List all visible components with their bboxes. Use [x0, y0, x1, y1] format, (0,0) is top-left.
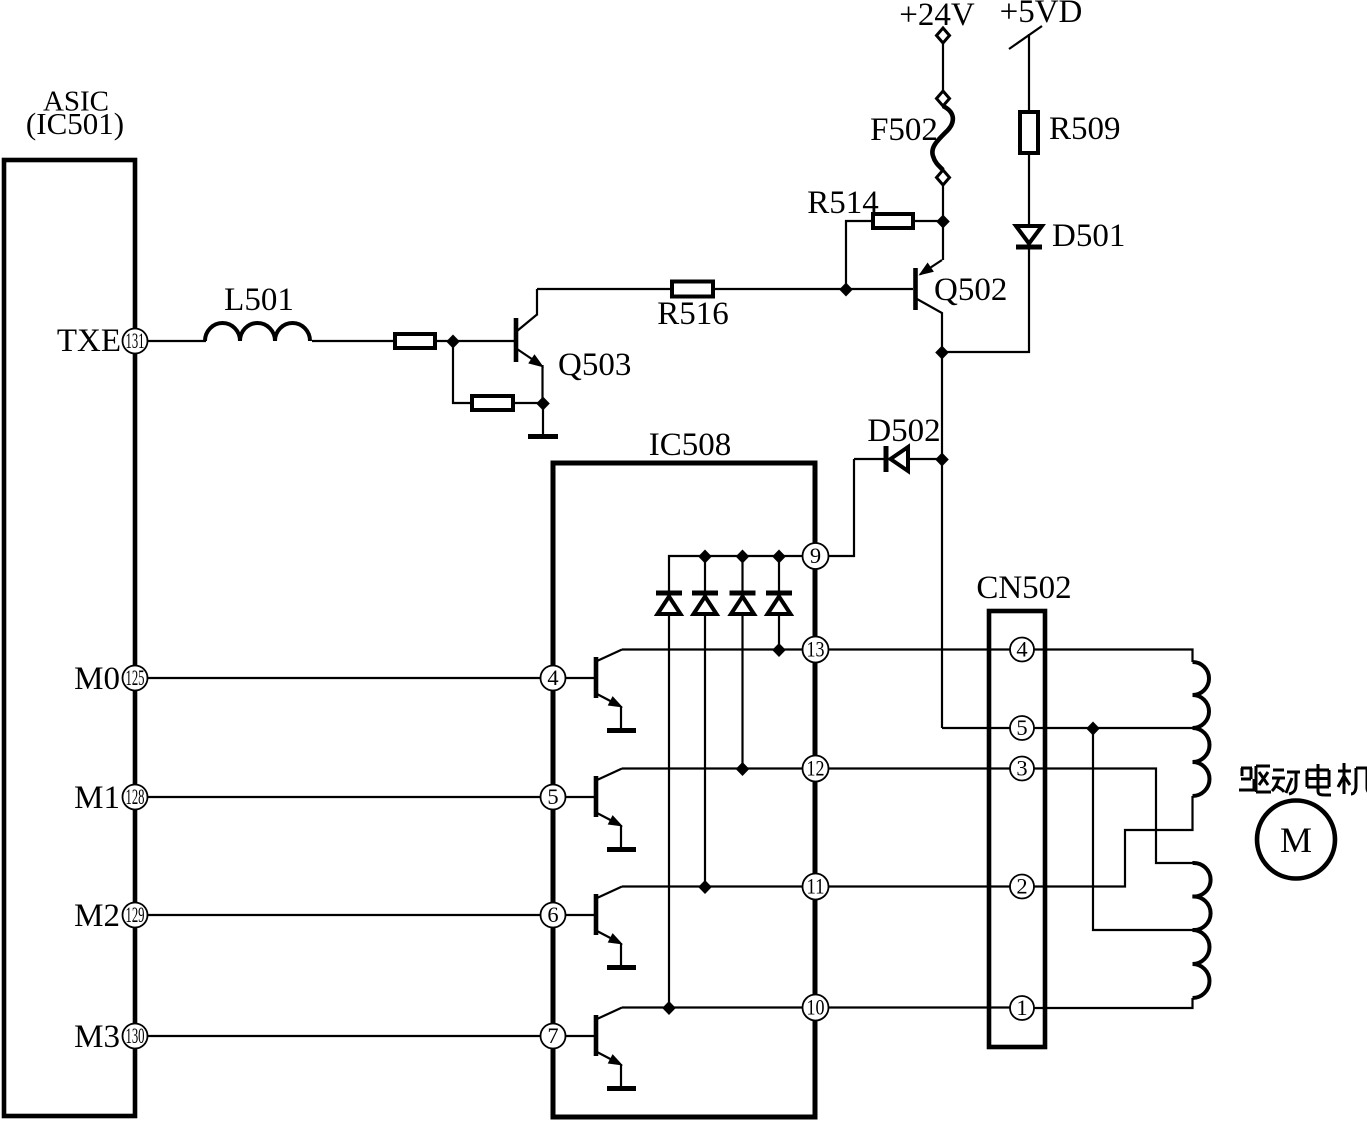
pin 11 circle IC508: [803, 874, 829, 900]
svg-text:130: 130: [126, 1023, 145, 1048]
svg-text:TXE: TXE: [57, 323, 121, 359]
svg-text:11: 11: [807, 874, 825, 899]
wire D502 to pin9: [829, 459, 854, 556]
svg-text:R514: R514: [807, 185, 879, 221]
svg-text:4: 4: [1016, 637, 1027, 662]
svg-text:3: 3: [1016, 756, 1027, 781]
svg-text:Q502: Q502: [934, 272, 1007, 308]
pin 4 circle CN502: [1010, 637, 1034, 662]
label 驱动电机 (drive motor) hand-drawn glyphs: [1239, 763, 1367, 795]
svg-text:M0: M0: [74, 661, 120, 697]
svg-text:Q503: Q503: [558, 347, 631, 383]
wire T3 collector to pin11: [622, 885, 803, 887]
pin 13 circle IC508: [803, 637, 829, 663]
wire M3 to IC508 pin7: [148, 1035, 541, 1037]
svg-text:M1: M1: [74, 780, 120, 816]
wire M2 to IC508 pin6: [148, 914, 541, 916]
svg-text:125: 125: [126, 665, 145, 690]
transistor T2 (pin5): [566, 769, 624, 848]
transistor Q502: [916, 260, 943, 352]
transistor T1 (pin4): [566, 650, 624, 729]
motor M1 circle: [1257, 801, 1335, 879]
pin 5 circle CN502: [1010, 715, 1034, 740]
wire W2 to CN502 pin2: [1034, 796, 1193, 887]
pin 4 circle IC508: [541, 665, 566, 691]
wire T4 collector to pin10: [622, 1006, 803, 1008]
wire center tap to W3/W4 junction: [1093, 728, 1193, 930]
svg-text:D502: D502: [867, 413, 940, 449]
wire Q502 node to CN502 pin5: [942, 727, 1010, 729]
resistor R516: [672, 282, 713, 297]
wire node B to ground: [542, 403, 544, 434]
wire node A down: [453, 341, 472, 403]
svg-text:12: 12: [807, 756, 825, 781]
svg-text:F502: F502: [870, 112, 938, 148]
pin 10 circle IC508: [803, 995, 829, 1021]
motor winding W1: [1193, 662, 1210, 728]
transistor T4 (pin7): [566, 1008, 624, 1087]
pin 9 circle IC508: [803, 543, 829, 569]
ground T4: [607, 1086, 636, 1091]
node dA4 top junction: [772, 550, 786, 564]
glyph 电: [1307, 764, 1331, 795]
svg-text:131: 131: [126, 328, 145, 353]
svg-text:6: 6: [547, 902, 558, 927]
wire node E to D501 branch: [942, 249, 1029, 352]
svg-text:4: 4: [547, 665, 558, 690]
resistor (unlabeled, base series): [395, 334, 435, 348]
diode D501: [1016, 226, 1042, 247]
transistor Q503: [516, 289, 544, 402]
svg-text:D501: D501: [1052, 218, 1125, 254]
connector CN502 box: [989, 611, 1045, 1047]
svg-text:M2: M2: [74, 898, 120, 934]
pin 2 circle CN502: [1010, 874, 1034, 899]
power terminal diamond: [937, 28, 950, 43]
glyph 动: [1272, 770, 1300, 794]
clamp diode DA3: [730, 556, 756, 769]
svg-text:+24V: +24V: [899, 0, 975, 33]
wire CN502 pin3 to winding W3: [1034, 769, 1193, 864]
svg-text:(IC501): (IC501): [26, 106, 124, 141]
motor winding W4: [1193, 930, 1210, 998]
pin 12 circle IC508: [803, 756, 829, 782]
svg-text:1: 1: [1016, 995, 1027, 1020]
svg-text:M: M: [1280, 820, 1312, 860]
power tap slash: [1009, 26, 1042, 49]
wire TXE to L501: [148, 340, 207, 342]
motor winding W2: [1193, 728, 1210, 796]
glyph 驱: [1239, 766, 1271, 792]
pin 6 circle IC508: [541, 902, 566, 928]
ground (Q503 emitter): [528, 434, 558, 439]
svg-text:9: 9: [810, 543, 821, 568]
svg-text:M3: M3: [74, 1019, 120, 1055]
node dA2 top junction: [698, 550, 712, 564]
resistor (unlabeled, feedback): [472, 396, 513, 410]
node dA4 bottom junction (pin13 row): [772, 643, 786, 657]
pin 130 circle (M3): [123, 1023, 148, 1049]
wire CN502 pin5 to winding: [1034, 727, 1193, 729]
pin 129 circle (M2): [123, 902, 148, 928]
svg-text:5: 5: [1016, 715, 1027, 740]
fuse F502: [932, 91, 953, 185]
transistor T3 (pin6): [566, 887, 624, 966]
pin 128 circle (M1): [123, 784, 148, 810]
node C junction: [839, 283, 853, 297]
svg-text:R509: R509: [1049, 111, 1121, 147]
wire +24V to fuse: [942, 43, 944, 91]
node dA3 bottom junction (pin12 row): [736, 762, 750, 776]
wire feedback resistor to node B: [513, 402, 543, 404]
svg-text:L501: L501: [224, 282, 294, 318]
glyph 机: [1338, 763, 1367, 794]
wire CN502 pin4 to winding W1: [1034, 650, 1193, 663]
pin 131 circle (TXE): [123, 328, 148, 354]
wire W4 to CN502 pin1: [1034, 998, 1193, 1008]
wire pin12 to CN502 pin3: [829, 767, 1011, 769]
wire pin13 to CN502 pin4: [829, 648, 1011, 650]
inductor L501: [205, 323, 310, 341]
IC U2 IC508 box: [553, 463, 815, 1117]
clamp diode DA1: [656, 593, 682, 1008]
svg-text:13: 13: [807, 637, 825, 662]
motor winding W3: [1193, 863, 1211, 930]
node E junction (Q502 collector): [935, 346, 949, 360]
svg-text:5: 5: [547, 784, 558, 809]
IC U1 ASIC(IC501) box: [4, 160, 135, 1116]
wire pin11 to CN502 pin2: [829, 885, 1011, 887]
node W junction (center tap): [1086, 722, 1100, 736]
wire node A to Q503 base: [453, 340, 514, 342]
node dA3 top junction: [736, 550, 750, 564]
wire M1 to IC508 pin5: [148, 796, 541, 798]
wire node C up to R514: [846, 221, 873, 289]
pin 3 circle CN502: [1010, 756, 1034, 781]
node dA1 junction (pin10 row): [662, 1001, 676, 1015]
node B junction: [536, 397, 550, 411]
svg-text:2: 2: [1016, 874, 1027, 899]
ground T3: [607, 965, 636, 970]
wire T2 collector to pin12: [622, 767, 803, 769]
pin 5 circle IC508: [541, 784, 566, 810]
clamp diode DA4: [766, 556, 792, 650]
wire fuse to node D: [942, 185, 944, 260]
pin 125 circle (M0): [123, 665, 148, 691]
ground T1: [607, 728, 636, 733]
wire resistor to node A: [435, 340, 453, 342]
pin 1 circle CN502: [1010, 995, 1034, 1020]
node dA2 bottom junction (pin11 row): [698, 880, 712, 894]
svg-text:IC508: IC508: [649, 427, 732, 463]
svg-text:128: 128: [126, 784, 145, 809]
wire diode bus to pin9: [669, 556, 803, 595]
node A junction: [446, 335, 460, 349]
resistor R514: [873, 214, 913, 228]
svg-text:129: 129: [126, 902, 145, 927]
node F junction (D502): [935, 453, 949, 467]
node D junction: [936, 215, 950, 229]
svg-text:7: 7: [547, 1023, 558, 1048]
svg-text:R516: R516: [657, 296, 729, 332]
wire +5VD to R509: [1028, 34, 1030, 112]
wire T1 collector to pin13: [622, 648, 803, 650]
diode D502: [854, 446, 942, 472]
wire node E down to node F: [941, 352, 943, 728]
ground T2: [607, 847, 636, 852]
wire R509 to D501: [1028, 153, 1030, 226]
svg-text:10: 10: [807, 995, 825, 1020]
wire R516 to node C: [713, 288, 913, 290]
wire Q503 collector to R516: [537, 288, 672, 290]
clamp diode DA2: [692, 556, 718, 887]
wire pin10 to CN502 pin1: [829, 1006, 1011, 1008]
pin 7 circle IC508: [541, 1023, 566, 1049]
wire L501 to resistor: [312, 340, 395, 342]
svg-text:CN502: CN502: [976, 570, 1071, 606]
wire R514 to node D: [913, 220, 943, 222]
resistor R509: [1020, 112, 1038, 153]
wire M0 to IC508 pin4: [148, 677, 541, 679]
